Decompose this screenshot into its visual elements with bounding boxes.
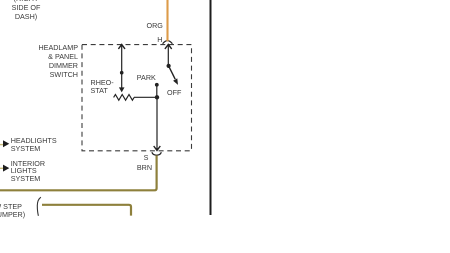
wire label ORG	[147, 22, 163, 29]
terminal H female connector arc	[163, 39, 173, 44]
wire label BRN	[137, 164, 152, 171]
pin S label	[144, 154, 149, 161]
node: arrow to HEADLIGHTS SYSTEM	[3, 140, 9, 147]
junction on wiper line	[120, 71, 124, 75]
switch blade to OFF position	[169, 66, 178, 85]
wire: page divider vertical line	[210, 0, 212, 215]
wire stub at interior lights arrow	[0, 167, 3, 169]
rheostat wiper double arrow	[118, 44, 125, 92]
wire: break curve at W STEP BUMPER source	[37, 197, 41, 216]
wire: brown wire from terminal S down and left	[0, 155, 157, 190]
node INTERIOR LIGHTS SYSTEM label	[11, 160, 45, 183]
node HEADLIGHTS SYSTEM label	[11, 137, 57, 152]
node PARK contact	[155, 83, 159, 97]
node: fuse block location label (RIGHT SIDE OF DASH)	[0, 0, 52, 22]
terminal S male arrow (inside switch, pointing down)	[154, 97, 161, 150]
wire: dark yellow wire to step bumper circuit	[42, 205, 131, 216]
junction: rheostat output node	[155, 95, 159, 99]
node PARK position label	[137, 74, 156, 81]
node: HEADLAMP & PANEL DIMMER SWITCH label	[18, 43, 78, 79]
node: arrow to INTERIOR LIGHTS SYSTEM	[3, 165, 9, 172]
value label RHEOSTAT	[91, 79, 114, 94]
pin H label	[157, 36, 162, 43]
node W STEP BUMPER label	[0, 203, 25, 220]
switch U1: headlamp & panel dimmer switch dashed outline	[82, 45, 192, 151]
resistor: rheostat element	[114, 95, 157, 101]
wire: orange feed wire from top	[166, 0, 168, 41]
terminal H male arrow (inside switch)	[165, 44, 172, 66]
wire stub at headlights arrow	[0, 144, 3, 146]
terminal S female connector arc	[152, 152, 161, 155]
switch pivot junction	[167, 64, 171, 68]
node OFF position label	[167, 89, 181, 96]
